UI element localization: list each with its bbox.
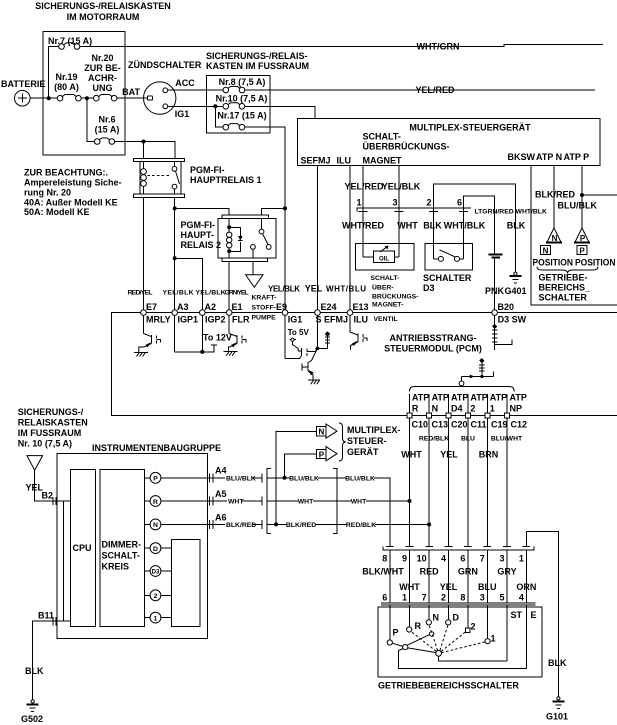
svg-text:2: 2 <box>441 593 446 603</box>
svg-text:(80 A): (80 A) <box>54 82 79 92</box>
wire relay2 coil to PCM E1 <box>228 262 230 313</box>
solenoid small label <box>371 275 419 323</box>
svg-text:YEL/BLK: YEL/BLK <box>268 285 300 294</box>
brace multiplex inputs <box>339 423 346 461</box>
fuse Nr.6 (15A) <box>94 115 119 145</box>
instrument cluster INSTRUMENTENBAUGRUPPE <box>57 443 221 639</box>
svg-text:Nr.17 (15 A): Nr.17 (15 A) <box>217 111 266 121</box>
svg-text:YEL: YEL <box>440 582 458 592</box>
svg-text:MULTIPLEX-STEUERGERÄT: MULTIPLEX-STEUERGERÄT <box>409 123 531 133</box>
svg-text:UNG: UNG <box>93 83 113 93</box>
svg-text:3: 3 <box>392 198 397 208</box>
relay PGM-FI-HAUPT-RELAIS 2 <box>181 215 276 262</box>
switch SCHALTER D3 box <box>423 243 473 293</box>
title: SICHERUNGS-/RELAIS-KASTEN IM FUSSRAUM <box>206 51 309 71</box>
svg-text:To 5V: To 5V <box>288 328 310 337</box>
wire relay1 coil to PCM E7 <box>143 197 145 312</box>
svg-text:IGP1: IGP1 <box>178 315 199 325</box>
svg-text:ATP: ATP <box>510 393 527 403</box>
svg-text:ATP: ATP <box>451 393 468 403</box>
multiplex control unit box <box>298 119 601 166</box>
node junction on E9 wire <box>283 206 287 210</box>
svg-text:WHT: WHT <box>397 221 418 231</box>
svg-text:E: E <box>531 610 537 620</box>
svg-text:STEUER-: STEUER- <box>347 436 387 446</box>
connector bracket right <box>333 469 337 534</box>
svg-text:WHT/RED: WHT/RED <box>342 221 384 231</box>
svg-text:D3: D3 <box>423 283 435 293</box>
svg-text:4: 4 <box>519 593 524 603</box>
svg-text:RED: RED <box>420 567 440 577</box>
svg-text:DIMMER-: DIMMER- <box>102 540 142 550</box>
wire fuse20 to ignition BAT <box>117 97 148 99</box>
transistor MRLY driver <box>139 315 161 352</box>
svg-text:RED/BLK: RED/BLK <box>346 522 376 529</box>
indicator N <box>145 519 208 530</box>
connector bar lower <box>381 603 536 605</box>
svg-text:LTGRN/RED WHT/BLK: LTGRN/RED WHT/BLK <box>475 209 547 216</box>
CPU box <box>70 470 95 627</box>
svg-text:ÜBERBRÜCKUNGS-: ÜBERBRÜCKUNGS- <box>363 142 450 152</box>
ground G401 <box>505 272 527 296</box>
harness wires between brackets <box>267 474 337 529</box>
switch contact P <box>387 605 398 645</box>
PCM terminal labels top row <box>146 302 514 312</box>
svg-text:8: 8 <box>460 593 465 603</box>
wire D3 switch pin2 to ground loop <box>433 184 515 273</box>
svg-text:SCHALT-: SCHALT- <box>371 275 400 282</box>
node junction A3/A2 <box>173 256 177 260</box>
indicator lamps box <box>172 539 200 626</box>
svg-text:BLU/BLK: BLU/BLK <box>558 201 598 211</box>
svg-text:POSITION: POSITION <box>575 258 616 268</box>
transistor ILU driver <box>350 315 367 350</box>
indicator 2 <box>145 590 172 601</box>
svg-text:NP: NP <box>510 404 523 414</box>
wire junction down to fuse Nr.17 <box>215 106 223 127</box>
svg-text:GRN/YEL: GRN/YEL <box>225 290 249 297</box>
svg-text:SCHALT-: SCHALT- <box>102 551 140 561</box>
svg-text:BLU: BLU <box>478 582 497 592</box>
svg-text:ANTRIEBSSTRANG-: ANTRIEBSSTRANG- <box>390 333 477 343</box>
svg-text:ACHR-: ACHR- <box>88 73 117 83</box>
wire PNK connector to PCM B20 <box>494 258 496 313</box>
P position switch triangle <box>574 228 616 268</box>
pin numbers upper connector <box>382 554 524 564</box>
svg-text:ATP P: ATP P <box>564 152 590 162</box>
svg-text:1: 1 <box>402 593 407 603</box>
svg-text:INSTRUMENTENBAUGRUPPE: INSTRUMENTENBAUGRUPPE <box>92 443 221 453</box>
svg-text:HAUPT-: HAUPT- <box>181 230 215 240</box>
wire fuse10 to multiplex unit <box>245 106 315 118</box>
svg-text:G502: G502 <box>21 714 43 724</box>
svg-text:G401: G401 <box>505 286 527 296</box>
svg-text:2: 2 <box>154 593 158 600</box>
wire D3 switch pin2 down into box <box>432 208 434 259</box>
svg-text:S EFMJ: S EFMJ <box>316 315 349 325</box>
svg-text:N: N <box>552 234 558 243</box>
switch arm contact to pin 4 <box>398 605 526 669</box>
svg-text:WHT/BLU: WHT/BLU <box>326 285 366 294</box>
svg-text:2: 2 <box>471 622 476 632</box>
wire relay2 switch feed from IG1 line <box>262 208 286 215</box>
connector ticks B11 <box>53 617 56 625</box>
chassis ground MRLY <box>134 352 148 356</box>
svg-text:YEL: YEL <box>440 450 458 460</box>
svg-text:ATP: ATP <box>412 393 429 403</box>
wire solenoid pin1 YEL/RED <box>362 166 364 244</box>
IG1 input circuit To 5V <box>285 315 316 358</box>
svg-text:C19: C19 <box>491 420 508 430</box>
wire WHT/GRN fuse7 to right edge <box>80 44 603 46</box>
svg-text:BLK: BLK <box>548 658 567 668</box>
pin numbers 1 3 2 6 <box>356 198 462 208</box>
svg-text:YEL/RED: YEL/RED <box>344 182 384 192</box>
svg-text:6: 6 <box>460 554 465 564</box>
svg-text:A3: A3 <box>177 302 189 312</box>
svg-text:BRÜCKUNGS-: BRÜCKUNGS- <box>372 292 418 301</box>
C connector labels <box>412 420 528 430</box>
connector ticks B2 <box>53 497 56 505</box>
indicator P <box>145 472 208 483</box>
svg-text:SCHALT-: SCHALT- <box>363 132 401 142</box>
svg-text:YEL/BLK: YEL/BLK <box>163 290 194 297</box>
svg-text:Nr. 10 (7,5 A): Nr. 10 (7,5 A) <box>18 439 72 449</box>
svg-text:ZUR BE-: ZUR BE- <box>84 63 121 73</box>
relay PGM-FI-HAUPTRELAIS 1 <box>134 159 262 198</box>
wire pin6 down into D3 box <box>463 208 465 259</box>
multiplex N input symbol <box>317 424 338 438</box>
transistor IG1 second stage <box>302 348 317 380</box>
svg-text:1: 1 <box>519 554 524 564</box>
svg-text:2: 2 <box>426 198 431 208</box>
svg-text:BEREICHS_: BEREICHS_ <box>539 283 592 293</box>
ground G101 <box>546 697 568 722</box>
battery B1 <box>1 79 45 106</box>
svg-text:YEL/RED: YEL/RED <box>415 85 455 95</box>
svg-text:ZUR BEACHTUNG:.: ZUR BEACHTUNG:. <box>24 168 108 178</box>
svg-text:STEUERMODUL (PCM): STEUERMODUL (PCM) <box>384 344 482 354</box>
ignition switch ZUENDSCHALTER <box>122 60 202 119</box>
svg-text:Nr.20: Nr.20 <box>91 53 113 63</box>
svg-text:SICHERUNGS-/: SICHERUNGS-/ <box>18 407 84 417</box>
svg-text:WHT: WHT <box>228 499 244 506</box>
svg-text:A4: A4 <box>215 466 227 476</box>
svg-text:KRAFT-: KRAFT- <box>252 295 277 302</box>
switch contact 1 <box>485 605 496 644</box>
node N triangle junction on RED/BLK <box>274 522 278 526</box>
node junction to fuse Nr.6 <box>85 96 89 100</box>
wire WHT to ATP R column <box>337 500 409 502</box>
svg-text:ORN: ORN <box>516 582 536 592</box>
svg-text:1: 1 <box>154 615 158 622</box>
ground G502 <box>21 700 43 724</box>
svg-text:B2: B2 <box>42 491 54 501</box>
PCM powertrain control module outline <box>111 313 617 416</box>
svg-text:Nr.7 (15 A): Nr.7 (15 A) <box>48 36 92 46</box>
svg-text:R: R <box>412 404 419 414</box>
fuse/relay box engine compartment <box>43 32 125 155</box>
svg-text:G101: G101 <box>546 712 568 722</box>
svg-text:ILU: ILU <box>337 156 352 166</box>
svg-text:WHT: WHT <box>298 499 314 506</box>
fuse feed triangle <box>27 456 43 471</box>
svg-text:ATP: ATP <box>470 393 487 403</box>
svg-text:IG1: IG1 <box>288 315 303 325</box>
svg-text:P: P <box>319 450 325 459</box>
wire color labels row 2 <box>399 582 536 592</box>
svg-text:WHT/GRN: WHT/GRN <box>417 42 460 52</box>
wire IG1 to fuse box footwell <box>168 105 223 107</box>
svg-text:R: R <box>415 621 422 631</box>
connector bracket left <box>267 469 271 534</box>
svg-text:MRLY: MRLY <box>146 315 171 325</box>
svg-text:PGM-FI-: PGM-FI- <box>181 220 216 230</box>
fuel pump arrow KRAFTSTOFFPUMPE <box>246 275 277 322</box>
label MULTIPLEX-STEUER-GERAET <box>347 425 400 457</box>
svg-text:BLK: BLK <box>25 666 44 676</box>
wire color labels <box>401 450 498 460</box>
connector bar upper (8 9 10 4 6 7 3 1) <box>383 546 534 550</box>
svg-text:Nr.8 (7,5 A): Nr.8 (7,5 A) <box>219 77 266 87</box>
fuse/relay box footwell <box>207 76 271 133</box>
svg-text:ZÜNDSCHALTER: ZÜNDSCHALTER <box>128 60 202 70</box>
svg-text:Nr.19: Nr.19 <box>55 72 77 82</box>
svg-text:B20: B20 <box>498 302 515 312</box>
wire N input triangle <box>276 431 316 524</box>
connector A4 output <box>207 466 262 483</box>
svg-text:ATP: ATP <box>432 393 449 403</box>
svg-text:ILU: ILU <box>354 315 369 325</box>
wire fuse19 to fuse20 <box>81 97 93 99</box>
fuse Nr.7 (15A) <box>48 36 92 49</box>
wire color labels above PCM <box>128 284 367 297</box>
svg-text:WHT/BLK: WHT/BLK <box>444 221 486 231</box>
switch contact R <box>407 605 422 632</box>
connector bar C (solenoid/switch connector) <box>357 208 471 211</box>
svg-text:6: 6 <box>382 593 387 603</box>
svg-text:SEFMJ: SEFMJ <box>301 156 331 166</box>
svg-text:BLK: BLK <box>423 221 442 231</box>
svg-text:A5: A5 <box>215 489 227 499</box>
svg-text:5: 5 <box>499 593 504 603</box>
svg-text:40A: Außer Modell KE: 40A: Außer Modell KE <box>24 198 118 208</box>
svg-text:WHT: WHT <box>399 582 420 592</box>
indicator R <box>145 496 208 507</box>
svg-text:FLR: FLR <box>232 315 250 325</box>
svg-text:C13: C13 <box>432 420 449 430</box>
svg-text:BATTERIE: BATTERIE <box>1 79 45 89</box>
svg-text:6: 6 <box>457 198 462 208</box>
svg-text:2: 2 <box>470 404 475 414</box>
svg-text:WHT: WHT <box>351 499 367 506</box>
internal bus B2 to B11 <box>63 501 65 621</box>
node RED/BLK junction <box>427 522 431 526</box>
wire ATP P to P position switch <box>581 166 583 228</box>
terminal circles on PCM bus <box>141 310 498 316</box>
svg-text:BLK: BLK <box>507 221 526 231</box>
svg-text:P: P <box>153 476 158 483</box>
ATP clamp circuit above bracket <box>459 358 493 386</box>
svg-text:SICHERUNGS-/RELAIS-: SICHERUNGS-/RELAIS- <box>206 51 308 61</box>
svg-text:BLK/RED: BLK/RED <box>226 522 256 529</box>
svg-text:SCHALTER: SCHALTER <box>539 293 588 303</box>
svg-text:B11: B11 <box>38 611 54 621</box>
switch contact 2 <box>466 605 476 633</box>
indicator 1 <box>145 612 172 623</box>
svg-text:4: 4 <box>441 554 446 564</box>
svg-text:PNK: PNK <box>485 286 505 296</box>
title: SICHERUNGS-/RELAISKASTEN IM MOTORRAUM <box>35 1 171 22</box>
svg-text:ACC: ACC <box>175 78 195 88</box>
svg-text:ÜBER-: ÜBER- <box>372 283 394 292</box>
wire fuse6 output to relay feeds <box>115 142 175 159</box>
svg-text:IM FUSSRAUM: IM FUSSRAUM <box>18 428 82 438</box>
wire P input triangle <box>285 454 317 478</box>
svg-text:SCHALTER: SCHALTER <box>423 273 472 283</box>
svg-text:8: 8 <box>382 554 387 564</box>
wire IGP1/IGP2 join to 12V stub <box>175 315 232 354</box>
svg-text:RED/BLK: RED/BLK <box>419 436 449 443</box>
wire BKSW down and right to edge <box>531 166 617 306</box>
note text ZUR BEACHTUNG <box>24 168 122 218</box>
connector A6 output <box>207 513 262 529</box>
svg-text:BLK/RED: BLK/RED <box>286 522 316 529</box>
svg-text:C10: C10 <box>412 420 429 430</box>
svg-text:E24: E24 <box>321 302 337 312</box>
svg-text:Nr.10 (7,5 A): Nr.10 (7,5 A) <box>216 94 268 104</box>
wire junction up to fuse Nr.7 <box>49 47 59 99</box>
wire solenoid pin3 YEL/BLK <box>398 166 400 244</box>
dimmer circuit box <box>100 470 145 627</box>
wire relay1 switch to PCM A3 <box>174 197 176 312</box>
svg-text:3: 3 <box>480 593 485 603</box>
svg-text:IG1: IG1 <box>175 109 190 119</box>
switch rotor common to pin 5 <box>436 605 507 661</box>
svg-text:GETRIEBE-: GETRIEBE- <box>539 273 588 283</box>
wire BLU/BLK to connector pin 8 <box>337 478 390 547</box>
PCM terminal labels bottom row <box>146 315 527 325</box>
title fussraum fuse reference <box>18 407 88 449</box>
svg-text:SICHERUNGS-/RELAISKASTEN: SICHERUNGS-/RELAISKASTEN <box>35 1 171 11</box>
wire B11 to ground <box>33 621 71 700</box>
small wire color labels <box>419 436 523 443</box>
svg-text:STOFF-: STOFF- <box>252 305 276 312</box>
svg-text:PGM-FI-: PGM-FI- <box>190 165 225 175</box>
svg-text:GETRIEBEBEREICHSSCHALTER: GETRIEBEBEREICHSSCHALTER <box>378 681 519 691</box>
svg-text:D3 SW: D3 SW <box>498 315 527 325</box>
svg-text:WHT: WHT <box>401 450 422 460</box>
svg-text:N: N <box>432 404 439 414</box>
svg-text:C11: C11 <box>471 420 487 430</box>
switch contact N <box>426 605 439 625</box>
wire labels below connector <box>342 221 526 231</box>
svg-text:GRN: GRN <box>458 567 478 577</box>
wire A3 branch to A2 <box>175 258 203 312</box>
brace under position switches <box>537 267 598 274</box>
svg-text:P: P <box>579 247 585 256</box>
svg-text:E1: E1 <box>232 302 243 312</box>
svg-text:N: N <box>543 247 549 256</box>
svg-text:MAGNET-: MAGNET- <box>372 301 403 308</box>
svg-text:1: 1 <box>491 634 496 644</box>
svg-text:C12: C12 <box>511 420 528 430</box>
svg-text:10: 10 <box>417 554 427 564</box>
svg-text:ATP: ATP <box>490 393 507 403</box>
svg-text:3: 3 <box>499 554 504 564</box>
wire BLU/BLK to right edge <box>582 194 617 196</box>
svg-text:BRN: BRN <box>479 450 499 460</box>
svg-text:D4: D4 <box>451 404 463 414</box>
svg-text:50A: Modell KE: 50A: Modell KE <box>24 207 90 217</box>
connector A5 output <box>207 489 262 506</box>
svg-text:YEL/BLK: YEL/BLK <box>196 290 226 297</box>
indicator D3 <box>145 566 172 577</box>
svg-text:D: D <box>453 613 460 623</box>
fuse Nr.19 (80A) <box>54 72 81 101</box>
multiplex P input symbol <box>317 447 338 461</box>
wire RED/BLK to ATP N column <box>337 523 429 525</box>
svg-text:P: P <box>393 628 399 638</box>
D3 SW input clamp <box>492 315 512 350</box>
svg-text:RED/YEL: RED/YEL <box>128 290 153 297</box>
node WHT junction <box>408 499 412 503</box>
transistor FLR driver <box>229 315 247 351</box>
fuse Nr.20 <box>84 53 121 101</box>
svg-text:N: N <box>319 428 325 437</box>
node junction IG1 wire <box>213 104 217 108</box>
SEFMJ input circuit with clamp diode <box>316 315 331 350</box>
wire YEL/RED fuse8 to right edge <box>245 89 595 91</box>
svg-text:C20: C20 <box>451 420 468 430</box>
svg-text:(15 A): (15 A) <box>95 125 120 135</box>
svg-text:BLK/WHT: BLK/WHT <box>362 567 404 577</box>
label GETRIEBE-BEREICHS-SCHALTER <box>539 273 592 303</box>
wire ILU to PCM E13 <box>349 166 351 313</box>
wire fuse17 to PCM E9 <box>245 127 285 312</box>
svg-text:A6: A6 <box>215 513 227 523</box>
pin numbers lower connector <box>382 593 524 603</box>
svg-text:R: R <box>153 499 158 506</box>
svg-text:7: 7 <box>480 554 485 564</box>
svg-text:rung Nr. 20: rung Nr. 20 <box>24 188 71 198</box>
svg-text:MAGNET: MAGNET <box>363 156 402 166</box>
svg-text:N: N <box>153 522 158 529</box>
svg-text:1: 1 <box>490 404 495 414</box>
transmission range switch box <box>378 607 542 677</box>
svg-text:D: D <box>153 546 158 553</box>
svg-text:IGP2: IGP2 <box>205 315 226 325</box>
node junction BLU/BLK <box>580 193 584 197</box>
svg-text:PUMPE: PUMPE <box>252 315 277 322</box>
N position switch triangle <box>533 228 574 268</box>
ATP connector bracket <box>409 387 514 392</box>
switch contact D <box>446 605 460 625</box>
ATP column separators and labels <box>409 393 526 414</box>
svg-text:BAT: BAT <box>122 87 140 97</box>
svg-text:RELAISKASTEN: RELAISKASTEN <box>18 418 88 428</box>
svg-text:BLU/BLK: BLU/BLK <box>289 475 319 482</box>
node junction A3 wire / relay2 coil feed <box>173 206 177 210</box>
wire YEL to instrument cluster B2 <box>35 470 71 501</box>
svg-text:7: 7 <box>422 593 427 603</box>
wire ACC to fuse Nr.8 <box>168 89 223 91</box>
node P triangle junction on BLU/BLK <box>283 476 287 480</box>
svg-text:ST: ST <box>511 610 523 620</box>
svg-text:RELAIS 2: RELAIS 2 <box>181 240 222 250</box>
wire SEFMJ to PCM E24 <box>317 166 319 313</box>
svg-text:Ampereleistung Siche-: Ampereleistung Siche- <box>24 178 122 188</box>
